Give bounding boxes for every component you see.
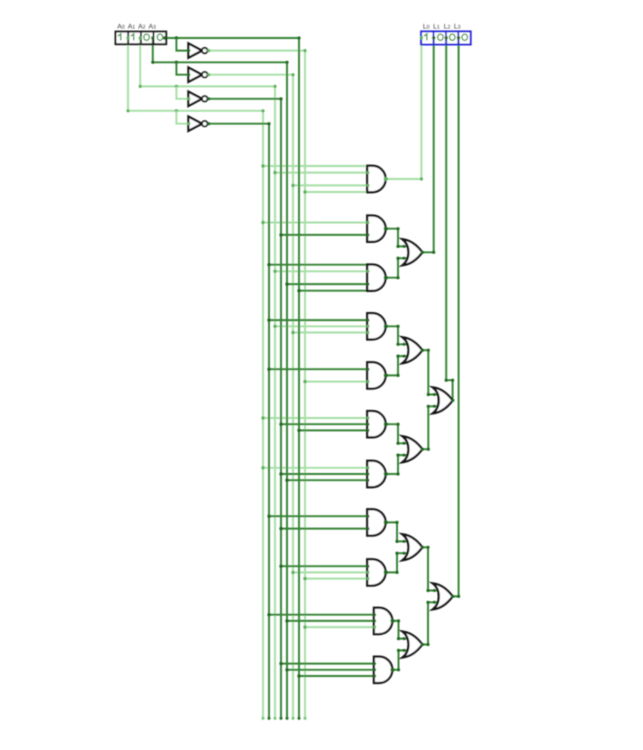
or-gate O2 [403,337,423,363]
wire O6 output to OR O7 [422,602,438,644]
wire G11 output to OR O6 [392,650,407,669]
wire nA0 to G5 input [269,368,368,370]
wire G7 output to OR O3 [386,455,408,474]
input pin values 1100 [118,34,121,40]
wire output of NOT U1 to bus nA3 [209,51,306,719]
node nA1 junction at G7 [279,472,282,475]
wire O1 output to pin L1 [422,37,433,252]
node nA3 junction at G10 [303,625,306,628]
and-gate G5 [367,362,385,388]
node A0 junction at G1 [261,164,264,167]
and-gate G3 [367,265,385,291]
wire G3 output to OR O1 [386,258,408,278]
wire nA3 to G9 input [305,578,368,580]
wire nA1 to G6 input [281,423,368,425]
or-gate O7 [433,583,453,609]
and-gate G11 [374,657,392,683]
node nA3 junction at G9 [303,577,306,580]
wire A0 to G1 input [263,165,368,167]
node A2 tap for NOT U2 [175,61,178,64]
svg-text:A0: A0 [117,24,125,31]
wire nA1 to G2 input [281,234,368,236]
wire O4 output to pin L2 [446,37,452,400]
node A3 junction at G3 [297,289,300,292]
wire A1 from pin to bus [140,38,275,718]
svg-text:A2: A2 [138,24,146,31]
svg-text:A3: A3 [149,24,157,31]
inverter U3 [188,92,202,106]
svg-text:L2: L2 [444,24,451,31]
node A1 junction at G4 [273,325,276,328]
wire nA0 to G10 input [269,614,375,616]
svg-text:L1: L1 [433,24,440,31]
input pin nodes [126,36,129,39]
node A1 junction at G1 [273,171,276,174]
wire A0 to G2 input [263,222,368,224]
wire nA2 to G9 input [293,571,368,573]
output pin box fill [421,31,471,44]
or-gate O4 [433,387,453,413]
node nA3 junction at G1 [303,190,306,193]
node nA0 junction at G3 [267,263,270,266]
wire nA0 to G4 input [269,319,368,321]
and-gate G4 [367,313,385,339]
wire A2 from pin to bus [153,38,287,718]
node nA1 junction at G8 [279,527,282,530]
node nA1 junction at G6 [279,423,282,426]
node nA2 junction at G9 [291,571,294,574]
node A3 junction at G6 [297,429,300,432]
wire output of NOT U2 to bus nA2 [209,75,294,719]
wire A2 to G3 input [287,283,368,285]
wire input of NOT U4 [176,111,188,124]
node nA0 junction at G5 [267,368,270,371]
wire O2 output to OR O4 [422,350,438,394]
and-gate G1 [367,166,385,192]
and-gate G7 [367,461,385,487]
wire A2 to G11 input [287,669,375,671]
node A0 junction at G6 [261,416,264,419]
inverter U1 [188,43,202,57]
node A1 junction at G3 [273,270,276,273]
wire nA1 to G9 input [281,565,368,567]
wire nA3 to G1 input [305,191,368,193]
node A2 junction at G11 [285,668,288,671]
svg-text:L3: L3 [454,24,461,31]
wire A1 to G3 input [275,270,368,272]
input pin box A0-A3 [116,32,167,45]
node A2 junction at G10 [285,619,288,622]
node A2 junction at G7 [285,479,288,482]
node A1 tap for NOT U3 [175,85,178,88]
node A3 tap for NOT U1 [175,36,178,39]
node A3 junction at G11 [297,674,300,677]
output pin values 1000 [424,34,427,40]
wire A1 to G1 input [275,172,368,174]
and-gate G9 [367,559,385,585]
wire input of NOT U2 [176,62,188,74]
wire G4 output to OR O2 [386,326,408,344]
wire nA1 to G11 input [281,663,375,665]
svg-text:A1: A1 [128,24,136,31]
node A0 junction at G7 [261,466,264,469]
node nA2 junction at G4 [291,331,294,334]
wire G1 output to pin L0 [386,37,422,179]
or-gate O6 [403,632,423,658]
node A2 junction at G3 [285,282,288,285]
wire nA2 to G4 input [293,332,368,334]
wire A3 to G3 input [299,290,368,292]
wire input of NOT U3 [176,86,188,98]
wire A2 to G7 input [287,479,368,481]
or-gate O3 [403,436,423,462]
wire A1 to G4 input [275,325,368,327]
node nA1 junction at G11 [279,662,282,665]
output pin nodes [420,36,423,39]
wire G2 output to OR O1 [386,229,408,247]
node nA1 junction at G2 [279,233,282,236]
inverter U2 [188,68,202,82]
node nA3 junction at G5 [303,380,306,383]
output pin box L0-L3 [421,31,471,44]
wire nA0 to G3 input [269,264,368,266]
wire O7 output to pin L3 [453,37,459,596]
input pin box fill [116,32,167,45]
wire O3 output to OR O4 [422,406,438,449]
wire nA2 to G1 input [293,184,368,186]
and-gate G10 [374,608,392,634]
wire A0 to G7 input [263,467,368,469]
wire input of NOT U1 [176,38,188,51]
wire A3 from pin to bus [165,38,300,718]
wire G8 output to OR O5 [386,522,408,541]
wire G6 output to OR O3 [386,424,408,443]
wire nA1 to G8 input [281,528,368,530]
wire A3 to G6 input [299,429,368,431]
wire output of NOT U4 to bus nA0 [209,124,270,719]
node nA0 junction at G10 [267,613,270,616]
wire A3 to G11 input [299,675,375,677]
and-gate G2 [367,216,385,242]
wire G10 output to OR O6 [392,621,407,639]
node A0 junction at G2 [261,221,264,224]
node nA0 junction at G8 [267,515,270,518]
port dots [187,49,190,52]
wire A2 to G10 input [287,620,375,622]
wire nA0 to G8 input [269,515,368,517]
and-gate G6 [367,411,385,437]
node A0 tap for NOT U4 [175,109,178,112]
node nA1 junction at G9 [279,565,282,568]
inverter U4 [188,117,202,131]
or-gate O1 [403,239,423,265]
and-gate G8 [367,509,385,535]
svg-text:L0: L0 [423,24,430,31]
wire nA1 to G7 input [281,473,368,475]
wire output of NOT U3 to bus nA1 [209,99,282,719]
wire nA3 to G5 input [305,381,368,383]
node nA2 junction at G1 [291,184,294,187]
or-gate O5 [403,534,423,560]
wire A0 from pin to bus [128,38,263,718]
wire A0 to G6 input [263,417,368,419]
wire nA3 to G10 input [305,626,375,628]
node nA0 junction at G4 [267,318,270,321]
wire O5 output to OR O7 [422,547,438,590]
wire G5 output to OR O2 [386,356,408,375]
wire G9 output to OR O5 [386,553,408,572]
